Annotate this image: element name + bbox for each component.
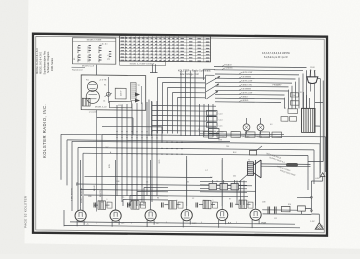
wire from adapter box down	[96, 110, 98, 212]
power transformer T1 and mains plug	[243, 67, 318, 139]
IF transformer T5	[199, 200, 215, 209]
primary feed verticals	[285, 70, 307, 108]
tube V2 (+C.)	[110, 206, 125, 225]
band switch S1 wiper arrows	[204, 69, 221, 99]
caption under voltage box	[82, 66, 95, 68]
mid wire labels	[109, 140, 237, 173]
detector feed staircase	[123, 188, 168, 207]
adapter output wires	[97, 117, 162, 142]
coupling condensers	[94, 202, 253, 208]
IF transformer T4	[165, 200, 181, 209]
interstage coupling loops	[72, 135, 326, 212]
table tube data grid	[120, 36, 211, 62]
cathode/heater return wires	[64, 210, 300, 228]
tube V3 (I.F.)	[145, 206, 159, 225]
tube V1 (-C.)	[75, 206, 89, 225]
wires from adapter right	[149, 100, 152, 137]
grid feed drops to tubes	[81, 156, 256, 206]
tube V5 (A.F.)	[217, 206, 232, 225]
oscillator section bus	[152, 106, 216, 132]
label PAGE 52 KOLSTER (rotated)	[24, 195, 28, 228]
output coupling condensers	[262, 206, 297, 213]
phono adapter detail box	[81, 75, 146, 114]
adapter to table wire	[96, 65, 98, 75]
padder condenser stack	[207, 111, 225, 139]
grid return stub	[150, 64, 158, 72]
IF transformer T6	[235, 200, 251, 209]
tube V4 (DET.)	[181, 206, 197, 225]
label KOLSTER RADIO INC (rotated)	[42, 104, 47, 158]
frame inner border	[36, 36, 324, 233]
IF transformer T3	[127, 201, 143, 210]
antenna lead-in bracket	[72, 67, 86, 71]
label low voltage coil (rotated scan)	[178, 69, 212, 76]
caption strip under data table	[120, 61, 166, 66]
battery tap and chassis ground	[263, 173, 325, 230]
speaker field label (diagonal)	[266, 152, 296, 177]
switch feeder staircase wires	[158, 78, 206, 134]
tube V6 (PWR)	[250, 205, 267, 224]
long bus wires	[61, 134, 230, 185]
wire labels left (rotated)	[71, 181, 101, 203]
colour-coded supply wires	[214, 64, 307, 103]
tuning gang vertical bus	[116, 71, 213, 203]
loudspeaker LS1	[237, 146, 311, 205]
right edge return wires	[308, 79, 323, 174]
resistor bank row	[200, 131, 284, 137]
bypass condenser bank	[76, 176, 256, 196]
IF transformer T2	[94, 201, 110, 210]
frame outer border	[33, 34, 327, 236]
label model numbers right (inverted)	[262, 53, 291, 59]
table tube-voltage box	[73, 38, 116, 64]
title MODEL list (rotated)	[36, 48, 54, 75]
component value labels	[88, 92, 302, 224]
